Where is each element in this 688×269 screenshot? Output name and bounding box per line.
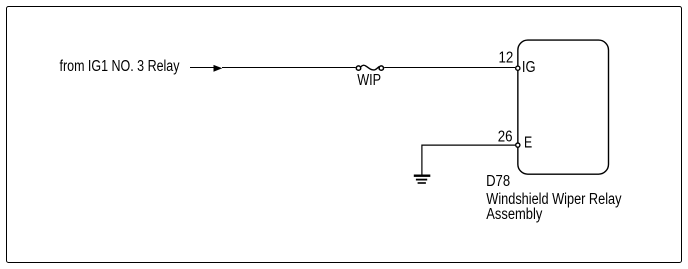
svg-text:Assembly: Assembly	[486, 206, 542, 223]
svg-text:E: E	[524, 135, 532, 152]
wire: fuse to connector pin 12	[384, 67, 515, 69]
svg-text:26: 26	[498, 128, 513, 145]
wire: arrow to fuse WIP	[222, 67, 356, 69]
wire: source arrow lead-in	[190, 67, 214, 69]
svg-text:from IG1 NO. 3 Relay: from IG1 NO. 3 Relay	[60, 58, 180, 75]
fuse WIP element (wavy link)	[361, 65, 379, 70]
arrowhead on source wire	[214, 65, 223, 72]
wire: pin 26 (E) to ground drop	[422, 145, 515, 174]
svg-text:12: 12	[499, 50, 514, 67]
pin 12 terminal circle	[516, 66, 520, 70]
svg-text:D78: D78	[486, 173, 510, 190]
svg-text:IG: IG	[522, 59, 536, 76]
svg-text:WIP: WIP	[357, 72, 381, 89]
ground symbol	[414, 175, 431, 184]
fuse WIP left terminal circle	[356, 66, 360, 70]
fuse WIP right terminal circle	[379, 66, 383, 70]
pin 26 terminal circle	[516, 143, 520, 147]
connector D78 body (Windshield Wiper Relay Assembly)	[518, 40, 609, 174]
